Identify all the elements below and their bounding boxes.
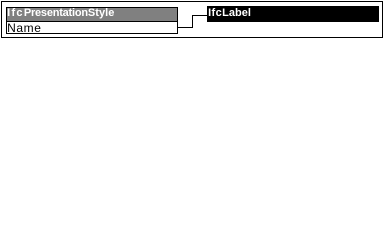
type box IfcLabel [207,6,379,22]
attribute row box [6,22,178,34]
type label IfcLabel [208,7,288,19]
entity header label IfcPresentationStyle [7,7,177,19]
wire: horizontal from attribute row [178,27,193,28]
entity box IfcPresentationStyle: header [6,7,178,22]
wire: vertical riser [192,15,193,28]
outer frame [1,1,383,38]
attribute label Name [7,22,127,34]
wire: horizontal to type box [193,15,207,16]
